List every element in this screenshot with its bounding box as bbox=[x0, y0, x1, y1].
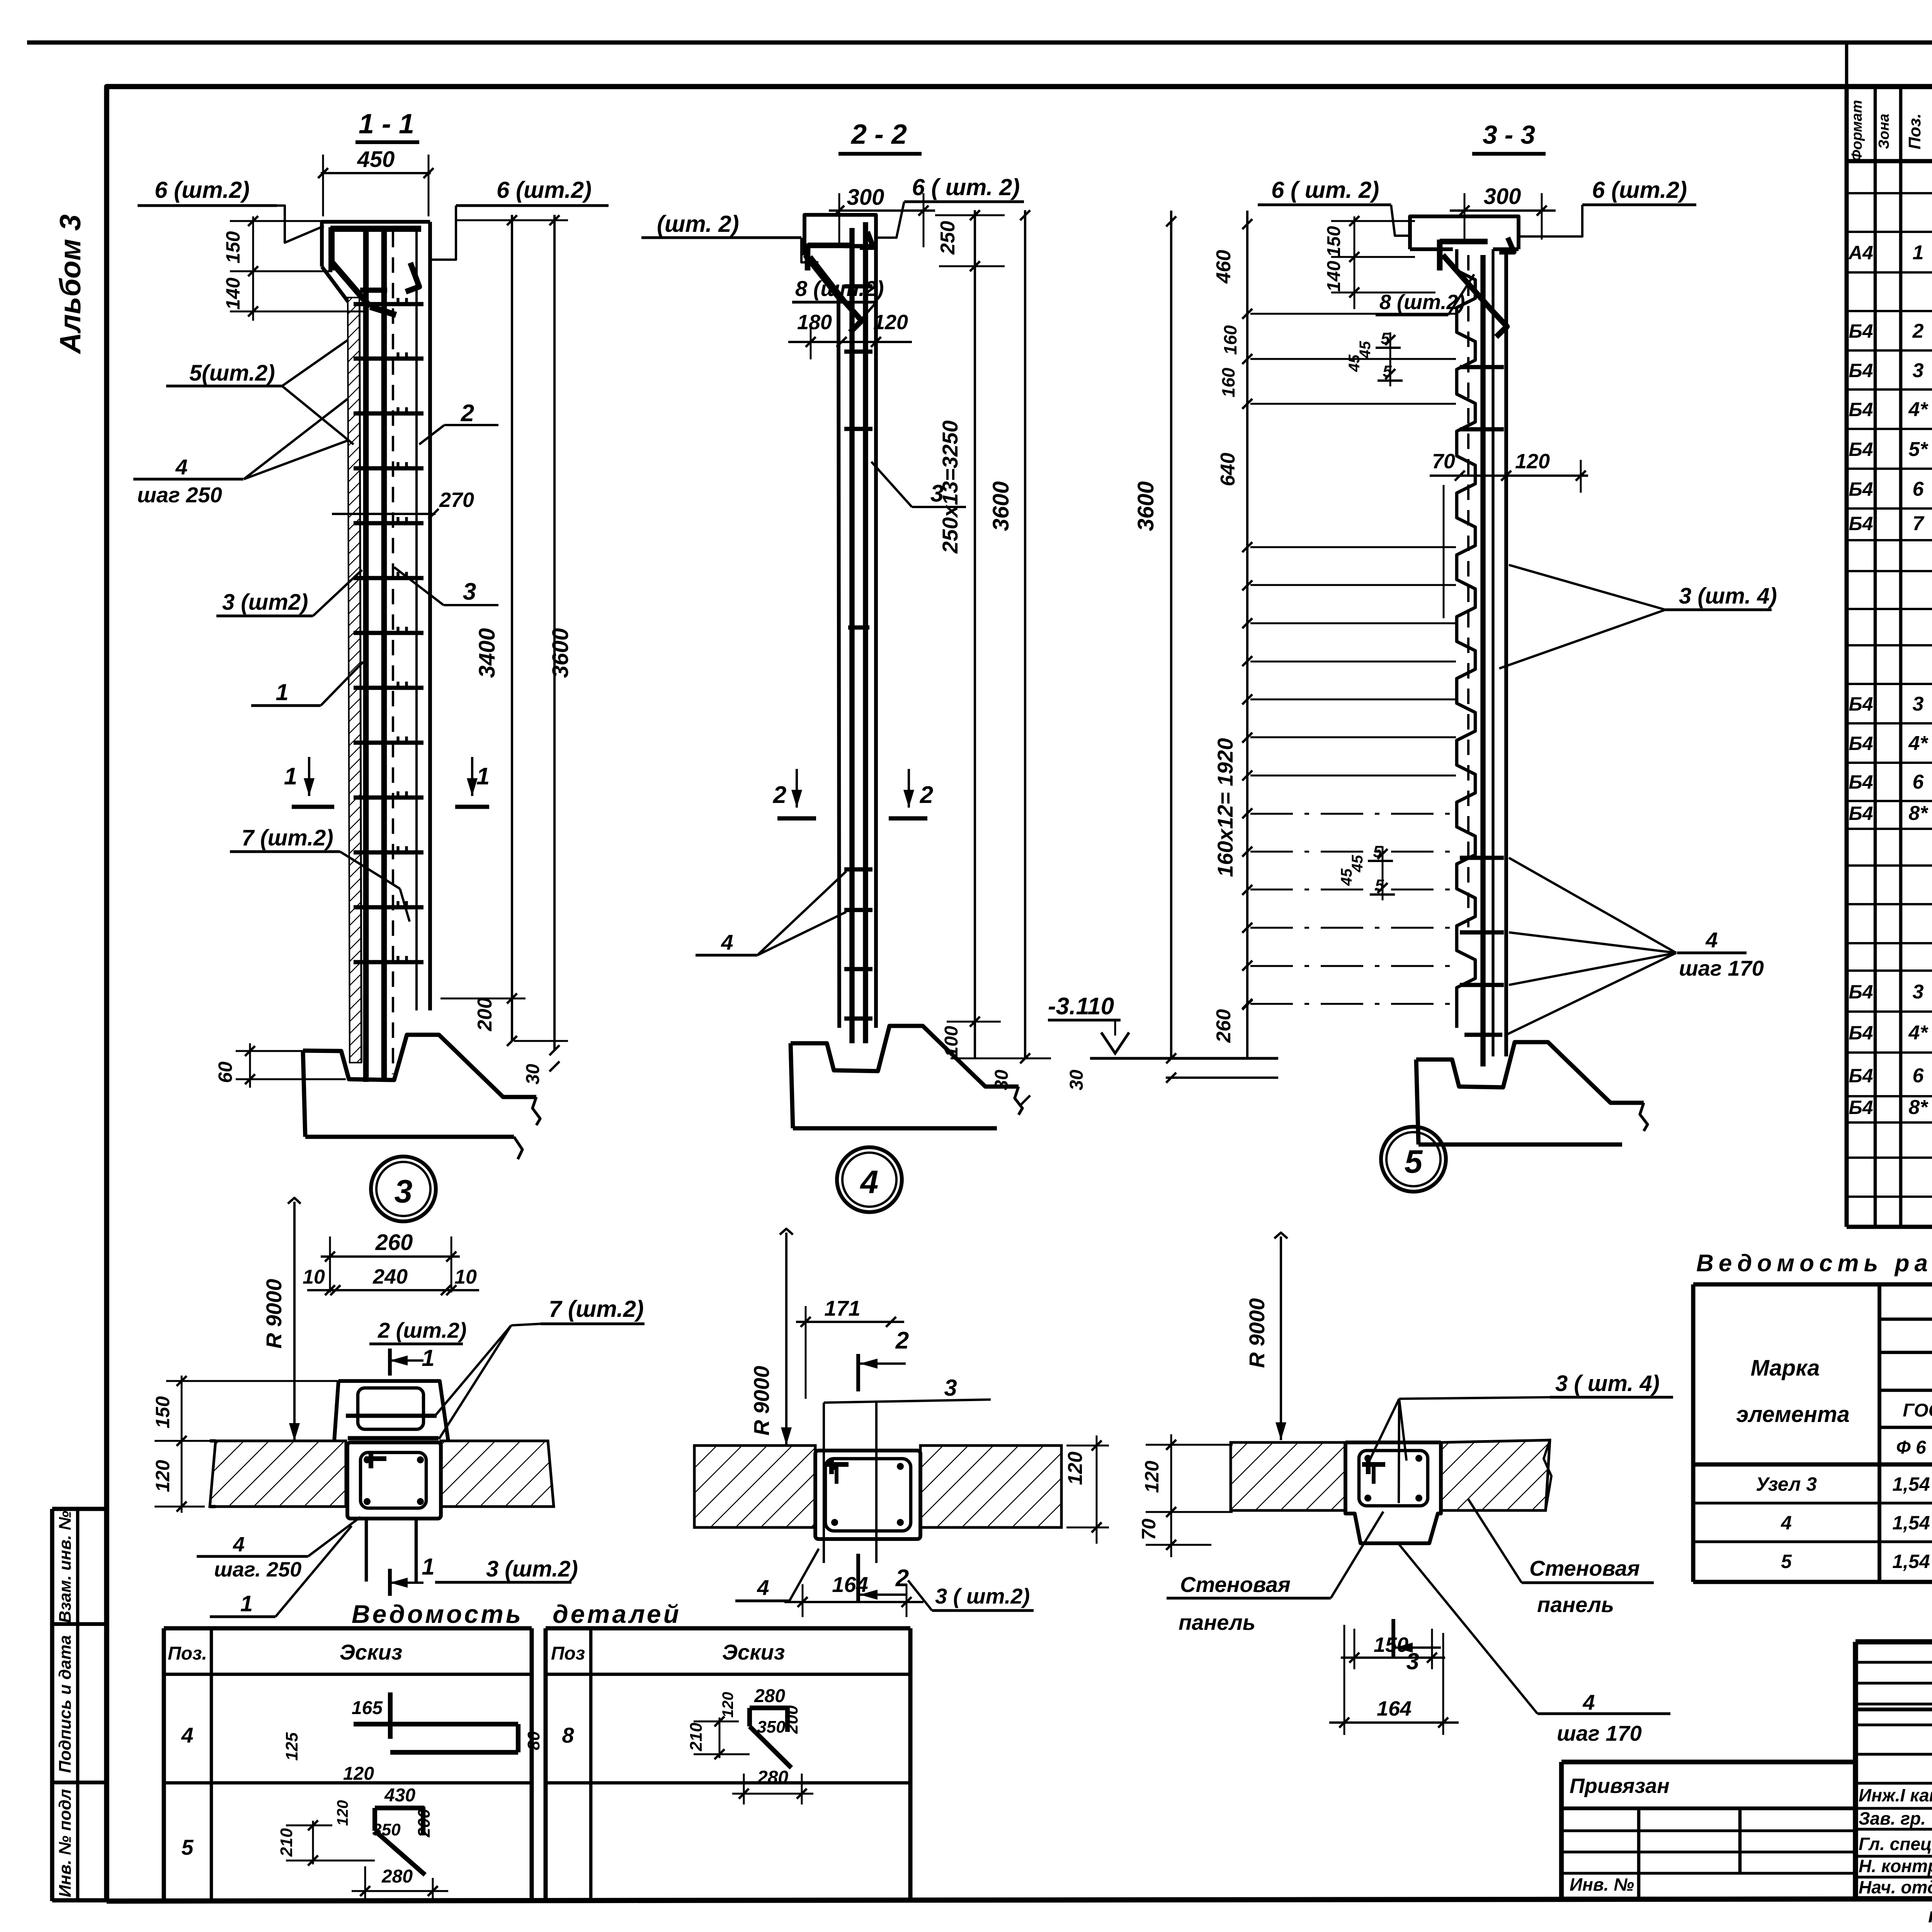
svg-text:6 ( шт. 2): 6 ( шт. 2) bbox=[1271, 177, 1379, 203]
detail 4: plate projection lines bbox=[823, 1403, 825, 1563]
svg-text:4*: 4* bbox=[1908, 398, 1929, 421]
steel table grid bbox=[1691, 1284, 1696, 1582]
привязан block bbox=[1561, 1760, 1855, 1764]
svg-text:30: 30 bbox=[523, 1064, 543, 1085]
svg-text:210: 210 bbox=[687, 1723, 706, 1752]
svg-text:1,54: 1,54 bbox=[1892, 1512, 1930, 1534]
svg-text:150: 150 bbox=[1374, 1633, 1408, 1656]
svg-text:2 - 2: 2 - 2 bbox=[850, 119, 907, 150]
svg-text:200: 200 bbox=[474, 998, 496, 1032]
svg-text:R 9000: R 9000 bbox=[1245, 1298, 1269, 1368]
rebar bars 1-1 bbox=[363, 232, 369, 1082]
svg-text:3: 3 bbox=[1913, 693, 1924, 715]
svg-text:6 ( шт. 2): 6 ( шт. 2) bbox=[912, 174, 1020, 200]
svg-text:Узел 3: Узел 3 bbox=[1756, 1473, 1817, 1495]
svg-text:Формат: Формат bbox=[1849, 100, 1865, 162]
svg-text:Марка: Марка bbox=[1750, 1355, 1820, 1381]
svg-text:4: 4 bbox=[757, 1575, 769, 1600]
svg-text:8*: 8* bbox=[1908, 1096, 1929, 1119]
detail 3: column section bbox=[347, 1442, 441, 1519]
svg-text:250: 250 bbox=[937, 221, 959, 255]
svg-text:280: 280 bbox=[757, 1767, 788, 1788]
svg-text:125: 125 bbox=[282, 1732, 301, 1761]
detail 3: column below bbox=[365, 1520, 368, 1582]
svg-text:165: 165 bbox=[352, 1698, 383, 1718]
svg-text:6 (шт.2): 6 (шт.2) bbox=[1592, 177, 1687, 203]
svg-text:350: 350 bbox=[757, 1718, 786, 1736]
title block outer bbox=[1855, 1639, 1932, 1644]
svg-text:150: 150 bbox=[152, 1396, 173, 1429]
details table 2 grid bbox=[546, 1626, 910, 1631]
svg-text:3 (шт2): 3 (шт2) bbox=[222, 590, 308, 615]
3-3 right outline bbox=[1504, 249, 1508, 1056]
svg-text:160: 160 bbox=[1220, 325, 1240, 355]
dim line 250x13 (2-2) bbox=[974, 210, 976, 1058]
svg-text:Б4: Б4 bbox=[1849, 513, 1873, 534]
detail 5: embed hook bbox=[1362, 1462, 1385, 1467]
svg-text:5: 5 bbox=[1405, 1143, 1423, 1180]
svg-text:Б4: Б4 bbox=[1849, 1065, 1873, 1087]
svg-text:Инв. №: Инв. № bbox=[1570, 1874, 1634, 1895]
svg-text:Инж.I кат: Инж.I кат bbox=[1859, 1785, 1932, 1805]
svg-text:120: 120 bbox=[1141, 1461, 1163, 1493]
svg-text:45: 45 bbox=[1357, 341, 1374, 359]
svg-text:Поз: Поз bbox=[551, 1643, 585, 1664]
svg-text:2: 2 bbox=[773, 782, 786, 808]
svg-text:4: 4 bbox=[181, 1723, 193, 1747]
detail 5: R9000 bbox=[1274, 1233, 1287, 1238]
ties 2-2 bbox=[844, 244, 872, 248]
svg-text:250х13=3250: 250х13=3250 bbox=[938, 420, 962, 554]
svg-text:3: 3 bbox=[1913, 981, 1924, 1003]
svg-text:Инв. № подл: Инв. № подл bbox=[56, 1789, 75, 1897]
detail circle 4 bbox=[837, 1147, 902, 1212]
base block 3-3 bbox=[1416, 1042, 1644, 1103]
svg-text:панель: панель bbox=[1179, 1610, 1255, 1634]
detail 3: slab hatched left bbox=[210, 1441, 346, 1507]
svg-text:4: 4 bbox=[233, 1533, 245, 1556]
svg-text:элемента: элемента bbox=[1736, 1402, 1850, 1427]
svg-text:Б4: Б4 bbox=[1849, 803, 1873, 824]
svg-text:7 (шт.2): 7 (шт.2) bbox=[241, 825, 333, 850]
svg-text:6: 6 bbox=[1913, 478, 1924, 500]
svg-text:2: 2 bbox=[920, 782, 933, 808]
svg-text:3400: 3400 bbox=[474, 628, 500, 678]
svg-text:45: 45 bbox=[1349, 855, 1366, 872]
svg-text:164: 164 bbox=[832, 1572, 868, 1597]
svg-text:164: 164 bbox=[1377, 1697, 1412, 1720]
svg-text:Взам. инв. №: Взам. инв. № bbox=[56, 1511, 75, 1623]
svg-text:140: 140 bbox=[1324, 261, 1344, 292]
rebar 3-3 bbox=[1480, 255, 1485, 1066]
svg-text:30: 30 bbox=[1066, 1070, 1087, 1090]
svg-text:260: 260 bbox=[375, 1230, 413, 1255]
svg-text:3 - 3: 3 - 3 bbox=[1483, 120, 1535, 150]
svg-text:Б4: Б4 bbox=[1849, 320, 1873, 342]
svg-text:3 ( шт.2): 3 ( шт.2) bbox=[935, 1584, 1030, 1608]
svg-text:4: 4 bbox=[1781, 1512, 1792, 1534]
svg-text:Гл. спец.: Гл. спец. bbox=[1859, 1834, 1932, 1854]
svg-text:деталей: деталей bbox=[553, 1600, 681, 1628]
svg-text:10: 10 bbox=[303, 1266, 325, 1288]
svg-text:Подпись и дата: Подпись и дата bbox=[56, 1635, 75, 1773]
svg-text:Зав. гр.: Зав. гр. bbox=[1859, 1808, 1926, 1828]
svg-text:3 (шт. 4): 3 (шт. 4) bbox=[1679, 583, 1777, 609]
specification table grid bbox=[1845, 87, 1849, 1227]
svg-text:171: 171 bbox=[824, 1296, 860, 1320]
svg-text:280: 280 bbox=[381, 1866, 413, 1887]
svg-text:3: 3 bbox=[1913, 359, 1924, 382]
dim 150/140 left bbox=[252, 216, 254, 321]
detail 4: column section bbox=[815, 1451, 920, 1539]
svg-text:Эскиз: Эскиз bbox=[722, 1640, 785, 1664]
svg-text:Б4: Б4 bbox=[1849, 693, 1873, 715]
svg-text:460: 460 bbox=[1213, 250, 1235, 284]
svg-text:120: 120 bbox=[873, 311, 908, 334]
svg-text:шаг 250: шаг 250 bbox=[137, 483, 222, 507]
svg-text:4*: 4* bbox=[1908, 1022, 1929, 1044]
svg-text:1: 1 bbox=[240, 1591, 253, 1616]
detail 3: console trapezoid bbox=[338, 1381, 448, 1441]
svg-text:А4: А4 bbox=[1848, 242, 1873, 264]
svg-text:Ведомость: Ведомость bbox=[352, 1600, 523, 1628]
detail 4: slab left bbox=[694, 1446, 815, 1527]
wall hatch band bbox=[348, 298, 361, 1063]
head rebar marks bbox=[328, 227, 335, 270]
svg-text:2: 2 bbox=[461, 400, 474, 427]
svg-text:3: 3 bbox=[944, 1375, 957, 1401]
svg-text:5: 5 bbox=[181, 1835, 194, 1859]
svg-text:4: 4 bbox=[860, 1164, 879, 1200]
detail circle 5 bbox=[1381, 1127, 1446, 1192]
column 3-3 head bbox=[1410, 216, 1519, 249]
svg-text:120: 120 bbox=[334, 1800, 351, 1826]
details table 1 grid bbox=[164, 1626, 532, 1631]
column 1-1 head bbox=[322, 222, 430, 267]
rebar 2-2 bbox=[849, 228, 854, 1043]
dim 60 bbox=[249, 1043, 251, 1088]
svg-text:Б4: Б4 bbox=[1849, 478, 1873, 500]
svg-text:300: 300 bbox=[1484, 184, 1521, 209]
svg-text:350: 350 bbox=[372, 1820, 401, 1839]
svg-text:120: 120 bbox=[343, 1764, 374, 1784]
svg-text:160: 160 bbox=[1218, 367, 1238, 397]
head rebar 2-2 bbox=[805, 243, 811, 270]
column 1-1 shaft outlines bbox=[359, 305, 361, 1063]
svg-text:5(шт.2): 5(шт.2) bbox=[189, 361, 275, 386]
dim line 3400 bbox=[511, 215, 513, 1041]
svg-text:120: 120 bbox=[719, 1692, 736, 1718]
base block 2-2 bbox=[791, 1026, 1019, 1087]
svg-text:280: 280 bbox=[754, 1686, 785, 1706]
svg-text:Поз.: Поз. bbox=[168, 1643, 207, 1664]
svg-text:-3.110: -3.110 bbox=[1048, 993, 1114, 1020]
svg-text:Эскиз: Эскиз bbox=[340, 1640, 403, 1664]
svg-text:2 (шт.2): 2 (шт.2) bbox=[378, 1318, 467, 1342]
dim 150/140 (3-3) bbox=[1354, 216, 1355, 309]
svg-text:1: 1 bbox=[284, 763, 297, 790]
svg-text:Поз.: Поз. bbox=[1905, 113, 1924, 149]
svg-text:Зона: Зона bbox=[1876, 114, 1892, 149]
base block 1-1 bbox=[303, 1035, 536, 1097]
detail 5: stirrup bbox=[1359, 1451, 1428, 1506]
svg-text:5*: 5* bbox=[1908, 438, 1929, 461]
svg-text:1 - 1: 1 - 1 bbox=[359, 109, 414, 139]
detail 3: slab edge curves bbox=[210, 1439, 216, 1443]
svg-text:панель: панель bbox=[1537, 1592, 1614, 1617]
svg-text:Стеновая: Стеновая bbox=[1529, 1556, 1640, 1580]
svg-text:300: 300 bbox=[847, 185, 884, 210]
svg-text:Б4: Б4 bbox=[1849, 981, 1873, 1003]
svg-text:120: 120 bbox=[152, 1460, 173, 1492]
svg-text:80: 80 bbox=[524, 1731, 543, 1750]
svg-text:Ф 6: Ф 6 bbox=[1896, 1437, 1926, 1458]
svg-text:Н. контр.: Н. контр. bbox=[1859, 1856, 1932, 1876]
svg-text:шаг. 250: шаг. 250 bbox=[214, 1558, 301, 1581]
detail sketch poz8 bbox=[750, 1708, 787, 1732]
column 2-2 head bbox=[804, 215, 876, 1028]
svg-text:4: 4 bbox=[1705, 928, 1718, 952]
svg-text:1,54: 1,54 bbox=[1892, 1473, 1930, 1495]
svg-text:3600: 3600 bbox=[548, 628, 573, 678]
detail sketch poz5 bbox=[375, 1808, 423, 1835]
svg-text:шаг 170: шаг 170 bbox=[1679, 956, 1764, 980]
svg-text:4: 4 bbox=[721, 930, 733, 954]
svg-text:3 ( шт. 4): 3 ( шт. 4) bbox=[1555, 1371, 1660, 1396]
svg-text:Б4: Б4 bbox=[1849, 360, 1873, 381]
svg-text:7 (шт.2): 7 (шт.2) bbox=[549, 1296, 644, 1322]
svg-text:Стеновая: Стеновая bbox=[1180, 1572, 1291, 1597]
svg-text:4*: 4* bbox=[1908, 732, 1929, 755]
svg-text:Б4: Б4 bbox=[1849, 1022, 1873, 1044]
svg-text:R 9000: R 9000 bbox=[749, 1366, 774, 1436]
svg-text:60: 60 bbox=[214, 1061, 236, 1083]
svg-text:1,54: 1,54 bbox=[1892, 1551, 1930, 1572]
mid dim stack line (3-3) bbox=[1246, 211, 1248, 1058]
detail 4: slab right bbox=[920, 1446, 1061, 1527]
svg-text:3600: 3600 bbox=[1133, 481, 1158, 531]
detail 3: R9000 bbox=[288, 1198, 301, 1204]
svg-text:1: 1 bbox=[422, 1345, 434, 1371]
svg-text:210: 210 bbox=[277, 1828, 296, 1857]
svg-text:Б4: Б4 bbox=[1849, 733, 1873, 754]
detail 3: console stirrup bbox=[358, 1388, 423, 1429]
svg-text:Нач. отд.: Нач. отд. bbox=[1859, 1877, 1932, 1897]
detail 3: cross bars bbox=[346, 1414, 437, 1418]
title block doc number bbox=[1855, 1708, 1932, 1711]
detail sketch poz4 bbox=[388, 1692, 393, 1739]
svg-text:120: 120 bbox=[1515, 450, 1550, 473]
svg-text:140: 140 bbox=[222, 277, 244, 310]
fold mark line bbox=[1845, 43, 1849, 87]
dim line 3600 (1-1) bbox=[553, 215, 556, 1050]
svg-text:Б4: Б4 bbox=[1849, 1097, 1873, 1118]
page top edge line bbox=[27, 41, 1932, 45]
level line and 30 bbox=[1090, 1057, 1278, 1060]
svg-text:450: 450 bbox=[357, 147, 395, 172]
svg-text:копировал: копировал bbox=[1928, 1904, 1932, 1927]
detail 5: slab break mark bbox=[1544, 1440, 1551, 1510]
detail 3: dim 150/120 left bbox=[181, 1376, 183, 1513]
detail 5: slab hatched right bbox=[1441, 1440, 1550, 1510]
svg-text:200: 200 bbox=[415, 1809, 434, 1838]
svg-text:2: 2 bbox=[1912, 320, 1924, 342]
svg-text:6 (шт.2): 6 (шт.2) bbox=[497, 177, 592, 203]
detail 3: embed mark bbox=[365, 1456, 386, 1461]
detail 4: R9000 bbox=[780, 1229, 793, 1235]
svg-text:R 9000: R 9000 bbox=[262, 1279, 286, 1349]
svg-text:Б4: Б4 bbox=[1849, 771, 1873, 793]
svg-text:шаг 170: шаг 170 bbox=[1557, 1721, 1642, 1745]
svg-text:6 (шт.2): 6 (шт.2) bbox=[155, 177, 250, 203]
svg-text:160х12= 1920: 160х12= 1920 bbox=[1213, 738, 1237, 877]
svg-text:70: 70 bbox=[1432, 450, 1455, 473]
svg-text:3: 3 bbox=[395, 1173, 413, 1209]
3-3 zigzag left edge (shear keys) bbox=[1457, 249, 1475, 1028]
svg-text:1: 1 bbox=[476, 763, 490, 790]
svg-text:5: 5 bbox=[1781, 1551, 1792, 1572]
detail circle 3 bbox=[371, 1156, 436, 1221]
svg-text:ГОСТ 5781- 82: ГОСТ 5781- 82 bbox=[1903, 1400, 1932, 1421]
left margin stamp boxes bbox=[52, 1507, 107, 1511]
head rebar 3-3 bbox=[1437, 240, 1443, 270]
svg-text:7: 7 bbox=[1913, 512, 1925, 535]
svg-text:Б4: Б4 bbox=[1849, 439, 1873, 460]
svg-text:260: 260 bbox=[1213, 1009, 1235, 1043]
svg-text:Привязан: Привязан bbox=[1570, 1774, 1670, 1798]
ties 3-3 bbox=[1460, 365, 1504, 369]
detail 5: column section outer with console bbox=[1345, 1442, 1441, 1543]
svg-text:8: 8 bbox=[562, 1723, 574, 1747]
svg-text:150: 150 bbox=[222, 231, 244, 264]
svg-text:8*: 8* bbox=[1908, 802, 1929, 825]
detail 5: slab hatched left bbox=[1231, 1442, 1345, 1510]
svg-text:640: 640 bbox=[1217, 453, 1239, 486]
svg-text:240: 240 bbox=[372, 1265, 408, 1288]
stirrup ties 1-1 bbox=[354, 302, 423, 306]
svg-text:10: 10 bbox=[454, 1266, 477, 1288]
svg-text:1: 1 bbox=[276, 679, 288, 705]
svg-text:3: 3 bbox=[463, 578, 476, 605]
mid 3600 line (3-3) bbox=[1170, 211, 1172, 1058]
svg-text:1: 1 bbox=[422, 1554, 434, 1580]
base 1-1 squiggle bottom-right bbox=[514, 1137, 522, 1159]
svg-text:2: 2 bbox=[895, 1327, 909, 1354]
svg-text:(шт. 2): (шт. 2) bbox=[657, 211, 739, 237]
svg-text:3600: 3600 bbox=[988, 481, 1014, 531]
svg-text:6: 6 bbox=[1913, 771, 1924, 793]
svg-text:120: 120 bbox=[1064, 1452, 1087, 1485]
svg-text:8 (шт.2): 8 (шт.2) bbox=[795, 276, 884, 301]
svg-text:270: 270 bbox=[439, 488, 474, 512]
detail 4: embed mark bbox=[825, 1462, 849, 1467]
svg-text:4: 4 bbox=[175, 455, 187, 479]
svg-text:3 (шт.2): 3 (шт.2) bbox=[486, 1556, 578, 1582]
svg-text:4: 4 bbox=[1582, 1690, 1595, 1714]
svg-text:430: 430 bbox=[384, 1785, 415, 1806]
detail 3: slab hatched right bbox=[441, 1441, 554, 1507]
dim line 3600 (2-2) bbox=[1024, 210, 1026, 1058]
svg-text:6: 6 bbox=[1913, 1065, 1924, 1087]
svg-text:Альбом 3: Альбом 3 bbox=[54, 214, 87, 354]
svg-text:1: 1 bbox=[1913, 241, 1924, 264]
svg-text:150: 150 bbox=[1324, 226, 1344, 257]
svg-text:70: 70 bbox=[1138, 1519, 1160, 1540]
svg-text:180: 180 bbox=[797, 311, 832, 334]
svg-text:Б4: Б4 bbox=[1849, 399, 1873, 420]
svg-text:Ведомость расхода стали на: Ведомость расхода стали на элемент (узел… bbox=[1696, 1250, 1932, 1277]
